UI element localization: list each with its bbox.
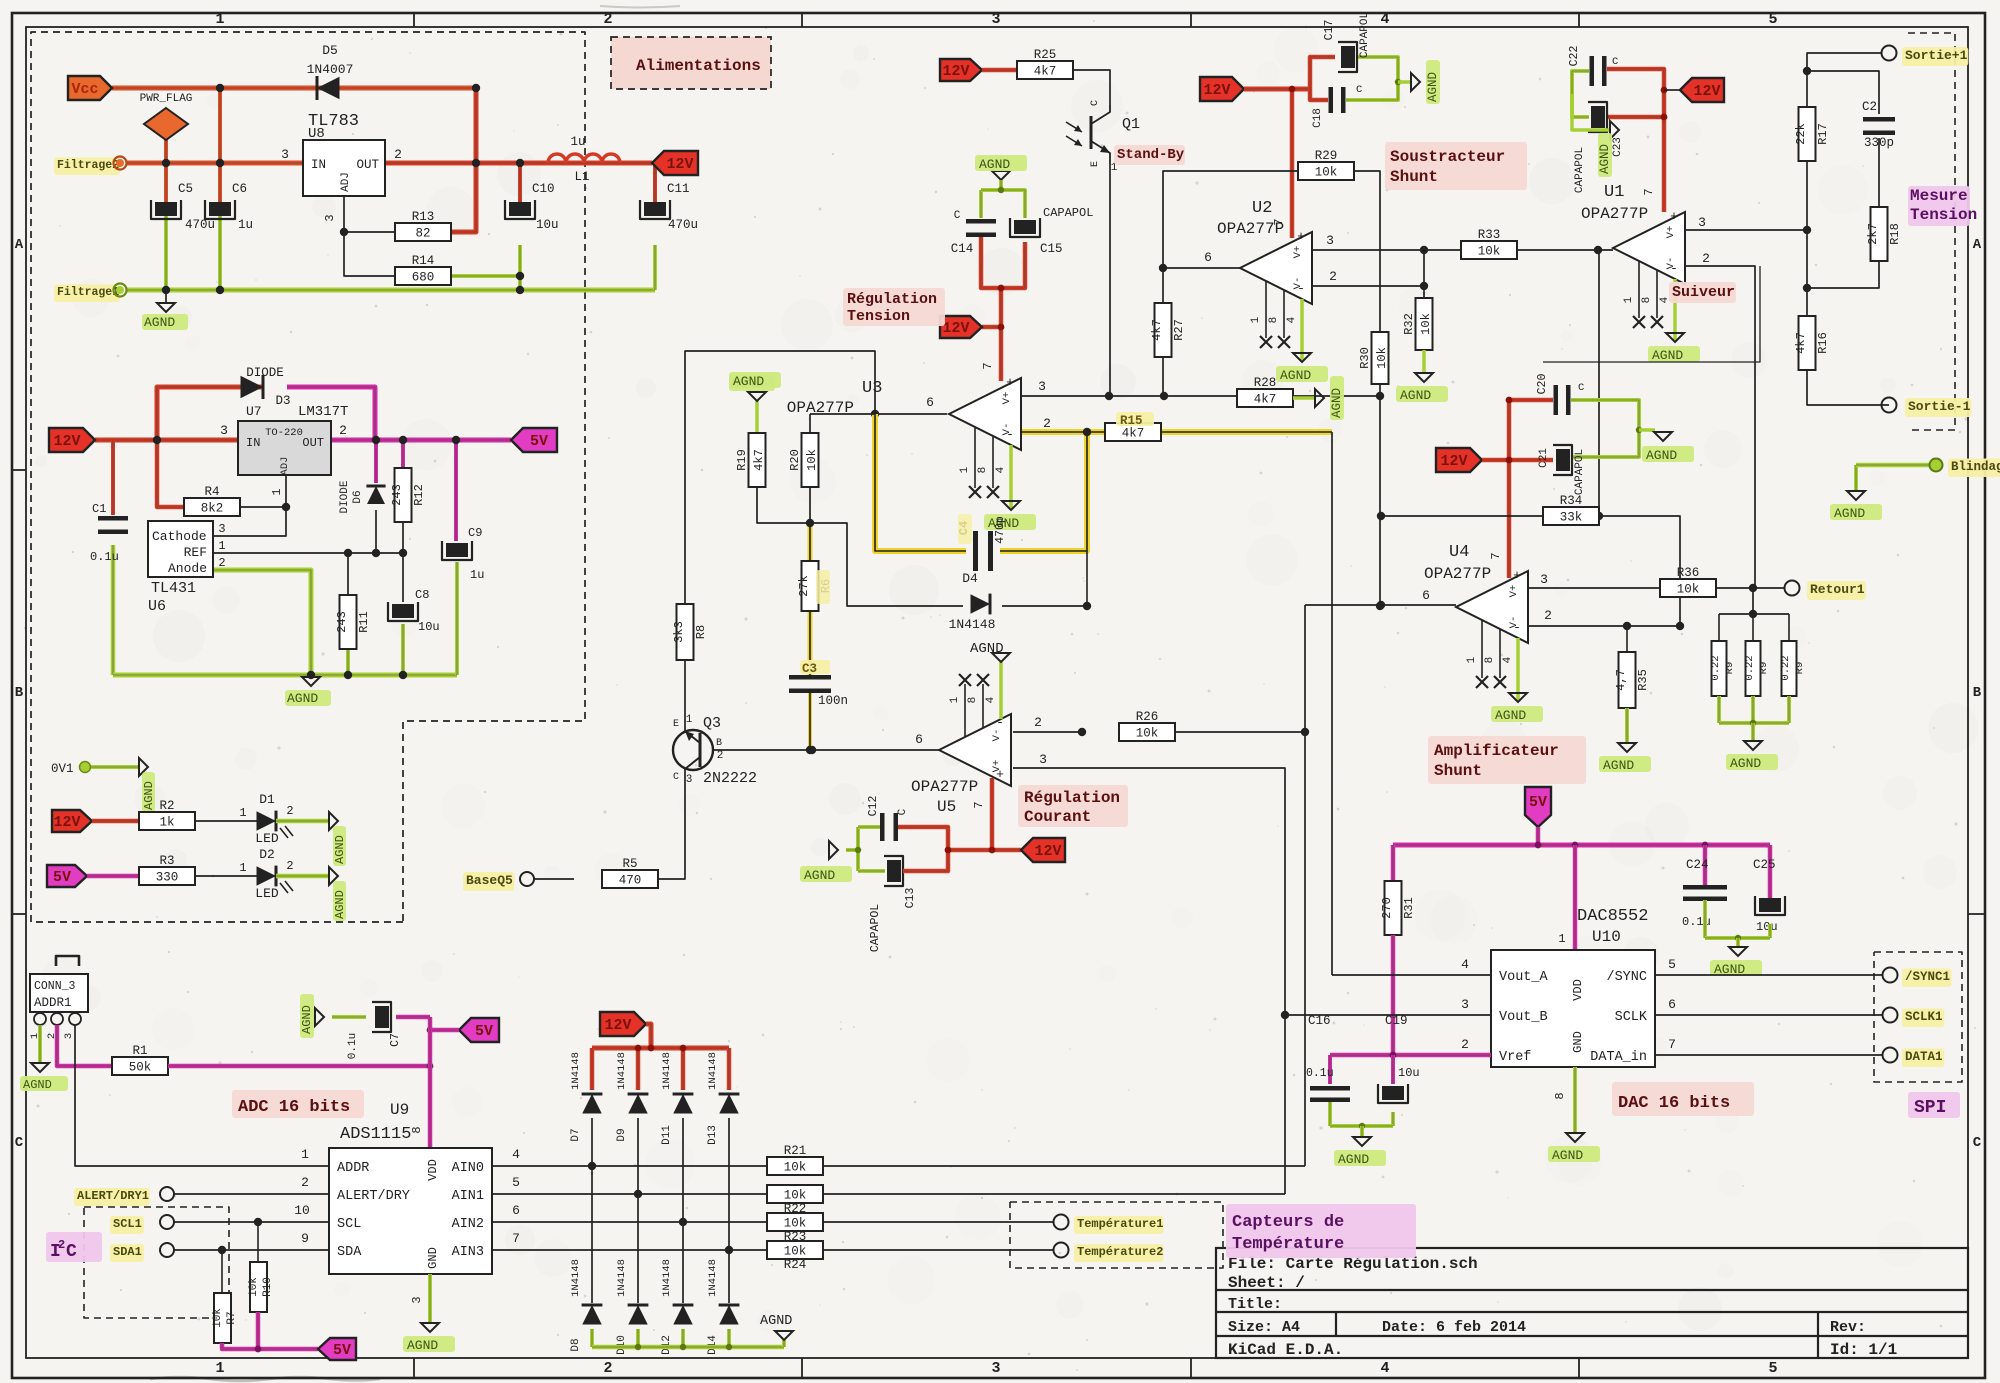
svg-text:10k: 10k	[784, 1245, 807, 1259]
svg-text:R12: R12	[412, 484, 426, 506]
svg-text:6: 6	[1668, 997, 1676, 1012]
svg-text:1k: 1k	[159, 816, 174, 830]
svg-text:C: C	[954, 210, 961, 222]
svg-text:R17: R17	[1816, 123, 1830, 145]
svg-text:2: 2	[286, 859, 293, 873]
svg-text:2: 2	[394, 147, 402, 162]
svg-text:0.22: 0.22	[1744, 655, 1756, 680]
svg-text:U1: U1	[1604, 183, 1624, 202]
svg-text:Size: A4: Size: A4	[1228, 1319, 1300, 1336]
svg-text:V+: V+	[1292, 246, 1304, 259]
svg-text:AGND: AGND	[1598, 144, 1612, 174]
svg-text:1u: 1u	[570, 135, 585, 149]
svg-text:3: 3	[63, 1033, 75, 1039]
svg-text:1N4148: 1N4148	[570, 1052, 582, 1090]
svg-text:R28: R28	[1254, 376, 1277, 390]
svg-text:-: -	[1513, 620, 1521, 635]
svg-text:2: 2	[603, 1360, 612, 1377]
svg-text:R19: R19	[735, 449, 749, 471]
svg-text:C: C	[673, 772, 679, 783]
svg-text:10k: 10k	[784, 1189, 807, 1203]
svg-text:3: 3	[1326, 233, 1334, 248]
svg-text:50k: 50k	[129, 1061, 152, 1075]
svg-text:OPA277P: OPA277P	[1424, 565, 1491, 583]
svg-text:12V: 12V	[942, 63, 969, 80]
svg-text:+: +	[996, 767, 1004, 782]
svg-text:Mesure: Mesure	[1910, 187, 1968, 205]
svg-text:DAC8552: DAC8552	[1577, 907, 1648, 926]
svg-text:27k: 27k	[797, 575, 811, 597]
svg-text:2: 2	[339, 423, 347, 438]
svg-text:10u: 10u	[1398, 1066, 1420, 1080]
svg-text:L1: L1	[574, 170, 589, 184]
svg-text:470: 470	[619, 874, 642, 888]
svg-text:1N4007: 1N4007	[307, 62, 354, 77]
svg-text:1N4148: 1N4148	[661, 1052, 673, 1090]
svg-text:AGND: AGND	[333, 890, 347, 919]
svg-text:AIN1: AIN1	[452, 1189, 484, 1204]
svg-text:AGND: AGND	[804, 868, 835, 883]
svg-text:C18: C18	[1312, 108, 1324, 128]
svg-text:6: 6	[1422, 588, 1430, 603]
svg-text:12V: 12V	[666, 156, 693, 173]
svg-text:8: 8	[1484, 657, 1496, 664]
svg-text:Shunt: Shunt	[1390, 168, 1438, 186]
svg-text:1N4148: 1N4148	[707, 1052, 719, 1090]
svg-text:Rev:: Rev:	[1830, 1319, 1866, 1336]
svg-text:4k7: 4k7	[752, 449, 766, 471]
svg-text:ADJ: ADJ	[340, 172, 352, 192]
svg-text:C25: C25	[1753, 858, 1776, 872]
svg-text:0.22: 0.22	[1780, 655, 1792, 680]
svg-text:R36: R36	[1677, 566, 1700, 580]
svg-text:CAPAPOL: CAPAPOL	[869, 904, 882, 952]
svg-text:B: B	[1973, 685, 1982, 701]
svg-text:C14: C14	[951, 242, 974, 256]
svg-text:1: 1	[686, 714, 693, 726]
svg-text:Régulation: Régulation	[1024, 789, 1120, 807]
svg-text:1: 1	[218, 539, 225, 553]
svg-text:10k: 10k	[248, 1277, 260, 1297]
svg-text:U9: U9	[390, 1101, 409, 1119]
svg-text:D4: D4	[962, 571, 978, 586]
svg-text:C: C	[66, 1242, 77, 1262]
svg-text:2: 2	[286, 804, 293, 818]
svg-text:+: +	[1670, 209, 1678, 224]
svg-text:D2: D2	[259, 847, 275, 862]
svg-text:8: 8	[1268, 317, 1280, 324]
svg-text:Sheet: /: Sheet: /	[1228, 1274, 1305, 1292]
svg-text:5: 5	[512, 1175, 520, 1190]
svg-text:7: 7	[512, 1231, 520, 1246]
svg-text:LED: LED	[255, 886, 279, 901]
svg-text:1: 1	[215, 11, 224, 28]
svg-text:Courant: Courant	[1024, 808, 1091, 826]
svg-text:33k: 33k	[1560, 511, 1583, 525]
svg-text:U8: U8	[308, 126, 325, 142]
svg-text:5V: 5V	[530, 433, 548, 450]
svg-text:AIN2: AIN2	[452, 1217, 484, 1232]
svg-text:LM317T: LM317T	[298, 404, 348, 420]
svg-text:Cathode: Cathode	[152, 529, 207, 544]
svg-text:AGND: AGND	[142, 781, 156, 810]
svg-text:AGND: AGND	[760, 1314, 792, 1329]
svg-text:2: 2	[58, 1238, 65, 1252]
svg-text:AGND: AGND	[1834, 506, 1865, 521]
svg-text:12V: 12V	[53, 433, 80, 450]
svg-text:3: 3	[1461, 997, 1469, 1012]
svg-text:ALERT/DRY1: ALERT/DRY1	[77, 1189, 149, 1203]
svg-text:10k: 10k	[1315, 166, 1338, 180]
svg-text:OPA277P: OPA277P	[1217, 220, 1284, 238]
svg-text:4k7: 4k7	[1150, 319, 1164, 341]
svg-text:0.22: 0.22	[1710, 655, 1722, 680]
svg-text:R26: R26	[1136, 710, 1159, 724]
svg-text:Sortie-1: Sortie-1	[1908, 399, 1971, 414]
svg-text:R9: R9	[1794, 662, 1806, 675]
svg-text:3: 3	[281, 147, 289, 162]
svg-text:-: -	[1670, 261, 1678, 276]
svg-text:8: 8	[1641, 297, 1653, 304]
svg-text:U2: U2	[1252, 199, 1272, 218]
svg-text:2: 2	[717, 750, 724, 762]
svg-text:10k: 10k	[1375, 347, 1389, 369]
svg-text:4: 4	[1502, 656, 1514, 663]
svg-text:U6: U6	[148, 598, 166, 615]
svg-text:Vout_A: Vout_A	[1499, 970, 1549, 985]
svg-text:TL431: TL431	[151, 580, 196, 597]
svg-text:Température1: Température1	[1077, 1217, 1163, 1231]
svg-text:2: 2	[1544, 608, 1552, 623]
svg-text:AGND: AGND	[1646, 448, 1677, 463]
svg-text:+: +	[1006, 375, 1014, 390]
svg-text:C: C	[1356, 84, 1362, 96]
svg-text:12V: 12V	[1693, 83, 1720, 100]
svg-text:OUT: OUT	[356, 158, 379, 172]
svg-text:CONN_3: CONN_3	[34, 980, 76, 993]
svg-text:1: 1	[239, 861, 246, 875]
svg-text:B: B	[716, 738, 722, 749]
svg-text:E: E	[1090, 161, 1101, 167]
svg-text:AGND: AGND	[1400, 388, 1431, 403]
svg-text:LED: LED	[255, 831, 279, 846]
svg-text:8: 8	[967, 697, 979, 704]
svg-text:R2: R2	[159, 799, 174, 813]
svg-text:4k7: 4k7	[1794, 332, 1808, 354]
svg-text:10: 10	[294, 1203, 310, 1218]
svg-text:D8: D8	[570, 1338, 582, 1351]
svg-text:470u: 470u	[668, 218, 698, 232]
svg-text:7: 7	[981, 362, 995, 369]
svg-text:D9: D9	[616, 1128, 628, 1141]
svg-text:AGND: AGND	[300, 1005, 314, 1034]
svg-text:B: B	[15, 685, 24, 701]
svg-text:R9: R9	[1724, 662, 1736, 675]
svg-text:3: 3	[323, 214, 337, 221]
svg-text:IN: IN	[311, 158, 326, 172]
svg-text:10u: 10u	[418, 620, 440, 634]
svg-text:R7: R7	[226, 1311, 238, 1324]
svg-text:10u: 10u	[1756, 920, 1778, 934]
svg-text:6: 6	[926, 395, 934, 410]
svg-text:10k: 10k	[1478, 245, 1501, 259]
svg-text:10k: 10k	[805, 449, 819, 471]
svg-text:D13: D13	[707, 1125, 719, 1145]
svg-text:4: 4	[1380, 11, 1389, 28]
svg-text:470u: 470u	[185, 218, 215, 232]
svg-text:3: 3	[220, 423, 228, 438]
svg-text:5V: 5V	[475, 1023, 493, 1040]
svg-text:ADJ: ADJ	[279, 457, 291, 476]
svg-text:7: 7	[1489, 552, 1503, 559]
svg-text:D11: D11	[661, 1125, 673, 1145]
svg-text:1N4148: 1N4148	[661, 1259, 673, 1297]
svg-text:AGND: AGND	[1338, 1152, 1369, 1167]
svg-text:2k7: 2k7	[1866, 223, 1880, 245]
svg-text:Alimentations: Alimentations	[636, 57, 761, 75]
svg-text:R3: R3	[159, 854, 174, 868]
svg-text:Amplificateur: Amplificateur	[1434, 742, 1559, 760]
svg-text:R15: R15	[1120, 414, 1143, 428]
svg-text:ADS1115: ADS1115	[340, 1125, 411, 1144]
svg-text:A: A	[15, 237, 24, 253]
svg-text:9: 9	[301, 1231, 309, 1246]
svg-text:10k: 10k	[212, 1308, 224, 1328]
svg-text:C17: C17	[1323, 20, 1336, 41]
svg-text:270: 270	[1380, 897, 1394, 919]
svg-text:82: 82	[415, 227, 430, 241]
svg-text:KiCad E.D.A.: KiCad E.D.A.	[1228, 1341, 1343, 1359]
svg-text:R16: R16	[1816, 332, 1830, 354]
svg-text:7: 7	[1668, 1037, 1676, 1052]
svg-text:AGND: AGND	[733, 374, 764, 389]
svg-text:1: 1	[1558, 932, 1565, 946]
svg-text:D6: D6	[352, 490, 364, 503]
svg-text:A: A	[1973, 237, 1982, 253]
svg-text:100n: 100n	[818, 694, 848, 708]
svg-text:3: 3	[218, 522, 225, 536]
svg-text:1u: 1u	[470, 568, 484, 582]
svg-text:0.1u: 0.1u	[347, 1033, 359, 1059]
svg-text:1u: 1u	[238, 218, 253, 232]
svg-text:3: 3	[1698, 215, 1706, 230]
svg-text:5: 5	[1668, 957, 1676, 972]
svg-text:Tension: Tension	[1910, 206, 1977, 224]
svg-text:2N2222: 2N2222	[703, 770, 757, 787]
svg-text:AGND: AGND	[1603, 758, 1634, 773]
svg-text:Shunt: Shunt	[1434, 762, 1482, 780]
svg-text:10k: 10k	[1677, 583, 1700, 597]
svg-text:4k7: 4k7	[1122, 427, 1145, 441]
svg-text:3: 3	[1039, 752, 1047, 767]
svg-text:12V: 12V	[1440, 453, 1467, 470]
svg-text:4: 4	[1461, 957, 1469, 972]
svg-text:1N4148: 1N4148	[707, 1259, 719, 1297]
svg-text:2: 2	[301, 1175, 309, 1190]
svg-text:4: 4	[1380, 1360, 1389, 1377]
svg-text:R1: R1	[132, 1044, 147, 1058]
svg-text:12V: 12V	[1034, 843, 1061, 860]
svg-text:BaseQ5: BaseQ5	[466, 873, 513, 888]
svg-text:OPA277P: OPA277P	[911, 778, 978, 796]
svg-text:Filtrage1: Filtrage1	[57, 286, 119, 299]
svg-text:10u: 10u	[536, 218, 559, 232]
svg-text:1: 1	[215, 1360, 224, 1377]
svg-text:3k3: 3k3	[672, 621, 686, 643]
svg-text:R8: R8	[694, 625, 708, 639]
svg-text:3: 3	[991, 1360, 1000, 1377]
svg-text:4: 4	[1286, 316, 1298, 323]
svg-text:R34: R34	[1560, 494, 1583, 508]
svg-text:AGND: AGND	[970, 641, 1004, 657]
svg-text:470p: 470p	[994, 516, 1007, 544]
svg-text:Capteurs de: Capteurs de	[1232, 1213, 1344, 1232]
svg-text:R25: R25	[1034, 48, 1057, 62]
svg-text:CAPAPOL: CAPAPOL	[1043, 206, 1093, 220]
svg-text:Soustracteur: Soustracteur	[1390, 148, 1505, 166]
svg-text:C5: C5	[178, 182, 193, 196]
svg-text:Vref: Vref	[1499, 1050, 1531, 1065]
svg-text:4: 4	[995, 466, 1007, 473]
svg-text:R4: R4	[204, 485, 219, 499]
svg-text:Sortie+1: Sortie+1	[1905, 48, 1968, 63]
svg-text:R18: R18	[1888, 223, 1902, 245]
svg-text:2: 2	[1329, 269, 1337, 284]
svg-text:2: 2	[603, 11, 612, 28]
svg-text:C23: C23	[1612, 137, 1624, 157]
svg-text:6: 6	[915, 732, 923, 747]
svg-text:AGND: AGND	[1495, 708, 1526, 723]
svg-text:C24: C24	[1686, 858, 1709, 872]
svg-text:Vcc: Vcc	[71, 81, 98, 98]
svg-text:Vout_B: Vout_B	[1499, 1010, 1548, 1025]
svg-text:3: 3	[991, 11, 1000, 28]
svg-text:5V: 5V	[1529, 794, 1547, 811]
svg-text:GND: GND	[1571, 1031, 1585, 1053]
svg-text:C20: C20	[1536, 374, 1549, 395]
svg-text:R33: R33	[1478, 228, 1501, 242]
svg-text:R29: R29	[1315, 149, 1338, 163]
svg-text:AGND: AGND	[1552, 1148, 1583, 1163]
svg-text:Régulation: Régulation	[847, 291, 937, 308]
svg-text:Tension: Tension	[847, 308, 910, 325]
svg-text:R24: R24	[784, 1258, 807, 1272]
svg-text:0.1u: 0.1u	[1306, 1067, 1334, 1080]
svg-text:C9: C9	[468, 526, 482, 540]
svg-text:V+: V+	[1508, 585, 1520, 598]
svg-text:10k: 10k	[1136, 727, 1159, 741]
svg-text:12V: 12V	[942, 320, 969, 337]
svg-text:1N4148: 1N4148	[949, 617, 996, 632]
svg-text:Température2: Température2	[1077, 1245, 1163, 1259]
svg-text:AGND: AGND	[407, 1338, 438, 1353]
svg-text:6: 6	[1204, 250, 1212, 265]
svg-text:10k: 10k	[784, 1217, 807, 1231]
svg-text:1: 1	[1623, 296, 1635, 303]
svg-text:C3: C3	[802, 662, 817, 676]
svg-text:1: 1	[1466, 656, 1478, 663]
svg-text:U10: U10	[1592, 928, 1621, 946]
svg-text:E: E	[673, 719, 679, 730]
svg-text:V+: V+	[1001, 392, 1013, 405]
svg-text:AGND: AGND	[333, 835, 347, 864]
svg-text:0V1: 0V1	[51, 762, 74, 776]
svg-text:DATA_in: DATA_in	[1590, 1050, 1647, 1065]
svg-text:Date: 6 feb 2014: Date: 6 feb 2014	[1382, 1319, 1526, 1336]
svg-text:U3: U3	[862, 379, 882, 398]
svg-text:R14: R14	[412, 254, 435, 268]
svg-text:12V: 12V	[1203, 82, 1230, 99]
svg-text:Retour1: Retour1	[1810, 582, 1865, 597]
svg-text:ALERT/DRY: ALERT/DRY	[337, 1189, 410, 1204]
svg-text:R27: R27	[1172, 319, 1186, 341]
svg-text:Blindage1: Blindage1	[1951, 460, 2000, 474]
svg-text:U4: U4	[1449, 543, 1469, 562]
svg-text:8k2: 8k2	[201, 502, 224, 516]
svg-text:R5: R5	[622, 857, 637, 871]
svg-text:Anode: Anode	[168, 561, 207, 576]
svg-text:SCL: SCL	[337, 1217, 361, 1232]
svg-text:TO-220: TO-220	[265, 427, 303, 439]
svg-text:DATA1: DATA1	[1905, 1050, 1943, 1064]
svg-text:10k: 10k	[1419, 313, 1433, 335]
svg-text:D7: D7	[570, 1128, 582, 1141]
svg-text:7: 7	[1642, 188, 1656, 195]
svg-text:3: 3	[1038, 379, 1046, 394]
svg-text:AGND: AGND	[1280, 368, 1311, 383]
svg-text:C16: C16	[1308, 1014, 1331, 1028]
svg-text:C: C	[897, 808, 909, 815]
svg-text:4: 4	[512, 1147, 520, 1162]
svg-text:REF: REF	[184, 545, 207, 560]
svg-text:R31: R31	[1402, 897, 1416, 919]
svg-text:SCL1: SCL1	[113, 1217, 142, 1231]
svg-text:SDA: SDA	[337, 1245, 362, 1260]
svg-text:+: +	[1513, 568, 1521, 583]
svg-text:4,7: 4,7	[1614, 669, 1628, 691]
svg-text:-: -	[1297, 281, 1305, 296]
svg-text:ADDR1: ADDR1	[34, 996, 72, 1010]
svg-text:R20: R20	[788, 449, 802, 471]
svg-text:4k7: 4k7	[1034, 65, 1057, 79]
svg-text:4k7: 4k7	[1254, 393, 1277, 407]
svg-text:AIN3: AIN3	[452, 1245, 484, 1260]
svg-text:R11: R11	[357, 611, 371, 633]
svg-text:1: 1	[959, 466, 971, 473]
svg-text:2: 2	[1702, 251, 1710, 266]
svg-text:1: 1	[239, 806, 246, 820]
svg-text:12V: 12V	[604, 1017, 631, 1034]
svg-text:C: C	[1090, 100, 1101, 106]
svg-text:D1: D1	[259, 792, 275, 807]
svg-text:C21: C21	[1538, 448, 1550, 468]
svg-text:-: -	[1006, 427, 1014, 442]
svg-text:6: 6	[512, 1203, 520, 1218]
svg-text:330: 330	[156, 871, 179, 885]
svg-text:12V: 12V	[53, 814, 80, 831]
svg-text:D3: D3	[275, 394, 290, 408]
svg-text:SCLK1: SCLK1	[1905, 1010, 1943, 1024]
svg-text:7: 7	[972, 801, 986, 808]
svg-text:Température: Température	[1232, 1235, 1344, 1254]
svg-text:C2: C2	[1862, 100, 1877, 114]
svg-text:Q3: Q3	[703, 715, 721, 732]
svg-text:AGND: AGND	[1652, 348, 1683, 363]
svg-text:C1: C1	[92, 502, 106, 516]
svg-text:D5: D5	[322, 43, 338, 58]
svg-text:R10: R10	[262, 1277, 274, 1297]
svg-text:C11: C11	[667, 182, 690, 196]
